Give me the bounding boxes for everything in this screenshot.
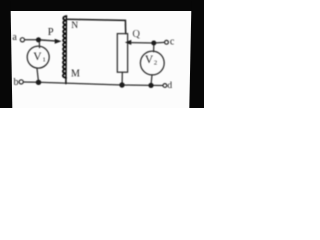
- svg-text:a: a: [12, 32, 17, 43]
- autotransformer coil vertical line: [65, 17, 68, 84]
- svg-text:Q: Q: [132, 29, 140, 40]
- bottom wire b to d: [23, 82, 163, 86]
- autotransformer coil loops: [63, 16, 67, 78]
- rheostat box: [117, 34, 127, 73]
- junction node above V2: [151, 41, 156, 46]
- svg-text:d: d: [167, 81, 172, 91]
- wire a to junction: [25, 39, 36, 41]
- terminal b circle: [19, 80, 23, 84]
- junction node below V1: [36, 80, 41, 85]
- terminal a circle: [20, 38, 24, 42]
- black scan border: right bar: [189, 0, 204, 108]
- top wire from coil to rheostat: [66, 19, 125, 33]
- svg-text:b: b: [14, 77, 19, 88]
- svg-text:V: V: [145, 54, 154, 66]
- junction node below V2: [148, 83, 153, 88]
- voltmeter V2 bottom lead: [150, 75, 153, 83]
- voltmeter V1 bottom lead: [37, 68, 38, 80]
- slider arrow P onto coil: [41, 39, 55, 42]
- black scan border: top bar: [0, 0, 204, 11]
- rheostat bottom lead: [121, 72, 123, 84]
- junction node below rheostat: [119, 82, 124, 87]
- svg-text:V: V: [33, 51, 42, 63]
- svg-text:1: 1: [43, 57, 46, 64]
- svg-text:2: 2: [154, 60, 157, 67]
- voltmeter V2: [140, 51, 164, 75]
- terminal d circle: [163, 84, 167, 88]
- terminal c circle: [165, 40, 169, 44]
- svg-text:c: c: [170, 37, 175, 48]
- junction node above V1: [36, 37, 41, 42]
- slider arrow Q onto rheostat: [125, 40, 131, 45]
- voltmeter V1 top lead: [38, 42, 40, 47]
- svg-text:N: N: [71, 21, 78, 31]
- wire junction to terminal c: [156, 41, 164, 44]
- svg-text:M: M: [71, 69, 80, 80]
- voltmeter V2 top lead: [153, 45, 155, 51]
- black scan border: left bar: [0, 0, 12, 108]
- voltmeter V1: [27, 46, 49, 68]
- svg-text:P: P: [48, 27, 54, 38]
